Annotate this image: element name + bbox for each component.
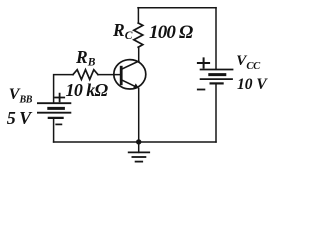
label VBB plus sign [55,94,64,102]
battery VCC plate short thick [210,73,225,76]
battery VBB plate short thick [49,107,64,110]
label resistor RC [113,20,132,42]
battery VBB plate long top [38,102,71,104]
ground lead [138,142,140,152]
label VCC [236,53,260,72]
transistor Q1 collector diagonal [122,61,138,69]
wire RC to collector [138,47,140,61]
battery VBB plate long [38,112,71,114]
transistor Q1 emitter arrow [133,83,139,88]
label VCC plus sign [198,58,209,67]
node ground junction dot [136,139,141,144]
resistor RC [134,23,143,47]
wire left rail to RB [54,75,73,103]
label VBB minus sign [56,123,61,125]
wire right rail top [215,8,217,70]
battery VCC plate long [201,78,232,80]
ground bar 1 [129,151,150,153]
label VCC value 10V [237,76,267,94]
label RC value 100 ohm [149,22,192,44]
transistor Q1 emitter diagonal [122,80,136,87]
wire right rail bottom [215,83,217,142]
ground bar 3 [136,161,143,163]
battery VCC plate long top [201,69,233,71]
resistor RB [73,70,98,80]
label VBB [9,86,32,106]
label VCC minus sign [198,89,205,91]
battery VCC plate short bottom [211,82,223,84]
transistor Q1 circle [114,60,146,89]
label RB value 10 kohm [66,80,108,101]
wire emitter to ground node [138,89,140,143]
label VBB value 5V [7,108,31,129]
wire RC top lead [137,8,139,23]
wire bottom horizontal [54,141,216,143]
transistor Q1 base bar [120,67,123,84]
wire base [98,74,120,76]
label resistor RB [76,47,95,69]
ground bar 2 [132,156,145,158]
battery VBB plate short bottom [49,117,63,119]
wire top horizontal [138,7,216,9]
wire VBB to bottom rail [53,118,55,142]
